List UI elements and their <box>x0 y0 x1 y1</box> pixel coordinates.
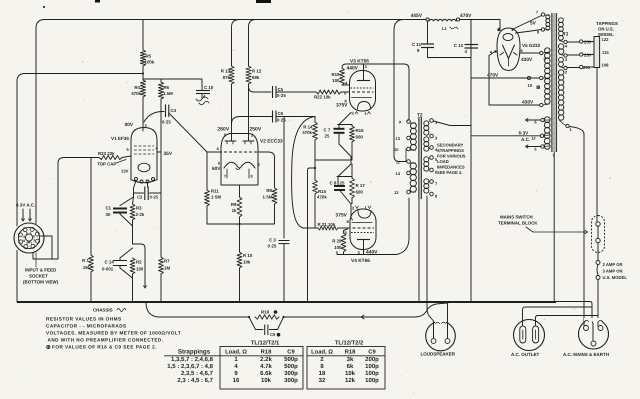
svg-text:R22 10k: R22 10k <box>314 95 331 100</box>
svg-text:U.S. MODEL: U.S. MODEL <box>603 275 628 280</box>
svg-text:500p: 500p <box>284 363 298 370</box>
svg-text:LOUDSPEAKER: LOUDSPEAKER <box>421 352 456 357</box>
svg-text:C4: C4 <box>171 108 177 113</box>
svg-text:CAPACITOR - -: CAPACITOR - - MICROFARADS <box>46 324 127 329</box>
svg-text:100p: 100p <box>365 377 379 384</box>
A.C. mains and earth plug <box>579 319 609 349</box>
svg-text:C6: C6 <box>278 111 284 116</box>
T2 left pins <box>407 120 411 124</box>
svg-text:LOAD: LOAD <box>437 159 449 164</box>
transformer T1 core <box>552 13 557 152</box>
wire C4 to V2 grid <box>169 113 207 152</box>
svg-text:V2 ECC33: V2 ECC33 <box>260 139 283 145</box>
chassis to earth wires <box>556 302 592 308</box>
svg-text:6k: 6k <box>347 363 354 370</box>
resistor R14 470k <box>313 122 318 140</box>
wire V2 grid left <box>206 152 208 190</box>
svg-text:3: 3 <box>33 238 35 242</box>
svg-text:100: 100 <box>332 78 340 83</box>
svg-text:200: 200 <box>583 65 591 70</box>
svg-text:470k: 470k <box>302 130 312 135</box>
svg-text:1·5M: 1·5M <box>262 195 272 200</box>
svg-text:0·25: 0·25 <box>277 93 286 98</box>
svg-text:100: 100 <box>334 245 342 250</box>
wire anode 4 to lower 430V <box>489 52 540 106</box>
svg-text:TOP CAP: TOP CAP <box>97 162 116 167</box>
svg-text:T3: T3 <box>563 32 569 37</box>
wire HT rail 470V top <box>36 20 404 29</box>
wire V3 anode to T2 pin9 <box>404 64 409 121</box>
wire HT rail 2 <box>17 74 143 82</box>
svg-text:100p: 100p <box>365 363 379 370</box>
svg-text:25: 25 <box>325 134 330 139</box>
svg-text:VOLTAGES. MEASURED BY MET: VOLTAGES. MEASURED BY METER OF 1000Ω/VOL… <box>46 331 181 336</box>
tube V4 KT66 <box>350 209 376 250</box>
svg-text:CHASSIS: CHASSIS <box>93 308 113 313</box>
wire 445V to T2 centre tap <box>394 20 407 162</box>
svg-text:1: 1 <box>30 232 32 236</box>
svg-text:R 21 10k: R 21 10k <box>318 222 336 227</box>
svg-text:R5: R5 <box>146 54 152 59</box>
svg-text:R 13: R 13 <box>221 69 231 74</box>
capacitor C8 25 <box>337 160 352 186</box>
svg-text:C9: C9 <box>368 349 376 356</box>
svg-text:FOR VALUES OF R18 & C9: FOR VALUES OF R18 & C9 SEE PAGE 2. <box>52 345 157 350</box>
screen line V4 <box>352 222 372 224</box>
svg-text:6·3V A.C.: 6·3V A.C. <box>16 203 35 208</box>
resistor R9 1k <box>237 197 242 217</box>
svg-text:600: 600 <box>356 190 364 195</box>
wire centre tap 10 <box>471 77 540 79</box>
T1 core earth <box>553 152 555 302</box>
svg-text:300p: 300p <box>284 370 298 377</box>
svg-text:470k: 470k <box>131 91 141 96</box>
svg-text:430V: 430V <box>521 57 533 63</box>
svg-text:V1 EF36: V1 EF36 <box>111 136 129 141</box>
svg-text:108: 108 <box>602 63 610 68</box>
tube V5 GZ32 <box>497 28 520 71</box>
wire socket pins to earth run <box>33 236 58 259</box>
cathodes V2 <box>224 162 255 168</box>
wire anode 6 to pin 9 430V <box>520 52 540 54</box>
junction below C1R3 <box>120 214 133 244</box>
svg-text:80V: 80V <box>125 122 134 127</box>
svg-text:115: 115 <box>602 50 609 55</box>
svg-text:300p: 300p <box>284 377 298 384</box>
svg-text:C5: C5 <box>278 87 284 92</box>
T2 right pins <box>430 119 434 123</box>
capacitor C7 25 <box>339 125 352 129</box>
svg-text:R 20: R 20 <box>332 239 342 244</box>
V2 bottom tail <box>239 185 241 197</box>
svg-text:A.C. MAINS & EARTH: A.C. MAINS & EARTH <box>563 352 609 357</box>
svg-text:R18: R18 <box>261 310 270 315</box>
branch to feed wire <box>133 244 146 286</box>
svg-text:445V: 445V <box>411 13 423 19</box>
wire cathode to C7 <box>339 113 351 125</box>
resistor R22 10k grid <box>316 90 341 94</box>
svg-text:7: 7 <box>30 241 32 245</box>
loudspeaker <box>426 321 456 351</box>
US tappings bar <box>594 37 600 68</box>
svg-text:7: 7 <box>536 10 538 15</box>
svg-text:0·25: 0·25 <box>150 195 159 200</box>
svg-text:1,5 : 2,3,6,7 : 4,8: 1,5 : 2,3,6,7 : 4,8 <box>167 363 213 370</box>
cathode V3 <box>358 102 371 110</box>
wire C6 to C3 <box>283 117 285 239</box>
svg-text:122: 122 <box>602 37 610 42</box>
svg-text:SEE PAGE 3.: SEE PAGE 3. <box>437 170 462 175</box>
svg-text:R 17: R 17 <box>356 183 366 188</box>
svg-text:V5 G232: V5 G232 <box>522 43 541 48</box>
wire rectifier filament to 5V winding <box>499 20 501 31</box>
capacitor C11 8 <box>427 21 429 44</box>
svg-text:0·25: 0·25 <box>162 120 171 125</box>
T1 heater winding 6.3V <box>544 117 550 123</box>
svg-text:5V: 5V <box>530 21 537 27</box>
svg-text:A.C. OUTLET: A.C. OUTLET <box>511 352 539 357</box>
cathode V4 <box>358 211 371 219</box>
svg-text:C 7: C 7 <box>324 128 331 133</box>
svg-text:TL/12/T2/1: TL/12/T2/1 <box>251 340 280 347</box>
svg-text:SOCKET: SOCKET <box>29 274 48 279</box>
svg-text:C 11: C 11 <box>412 42 422 47</box>
svg-text:R16: R16 <box>356 128 365 133</box>
heater tap wires <box>527 119 541 121</box>
wire V1 cathode to C2 <box>134 181 148 194</box>
T2 primary winding <box>410 123 416 129</box>
svg-text:200p: 200p <box>365 356 379 363</box>
svg-text:87k: 87k <box>223 75 231 80</box>
svg-text:A.C.: A.C. <box>521 137 530 142</box>
svg-text:R7: R7 <box>164 259 170 264</box>
svg-text:R8: R8 <box>266 188 272 193</box>
anode V4 <box>357 239 370 241</box>
wire anode to C5 <box>249 86 272 92</box>
capacitor C9 <box>249 317 284 330</box>
svg-text:470V: 470V <box>460 13 472 19</box>
svg-text:32: 32 <box>319 377 326 384</box>
svg-text:FOR VARIOUS: FOR VARIOUS <box>437 154 466 159</box>
svg-text:1k: 1k <box>232 208 237 213</box>
svg-text:R4: R4 <box>134 85 140 90</box>
svg-text:TERMINAL BLOCK: TERMINAL BLOCK <box>498 221 538 226</box>
svg-text:3 AMP ON: 3 AMP ON <box>603 269 623 274</box>
capacitor C5 0.25 <box>272 86 274 98</box>
wire V4 anode to T2 <box>337 198 409 255</box>
svg-text:500p: 500p <box>284 356 298 363</box>
svg-text:V4 KT66: V4 KT66 <box>351 258 370 264</box>
svg-text:1M: 1M <box>164 266 170 271</box>
svg-text:R2: R2 <box>136 260 142 265</box>
svg-text:13V: 13V <box>121 169 129 174</box>
svg-text:TL/12/T2/2: TL/12/T2/2 <box>335 340 363 347</box>
svg-text:1.5M: 1.5M <box>163 91 173 96</box>
svg-text:12k: 12k <box>345 377 356 384</box>
resistor R3 2.2k <box>130 204 135 220</box>
svg-text:2.2k: 2.2k <box>260 356 272 363</box>
svg-text:R19: R19 <box>331 72 340 77</box>
svg-text:AND WITH NO PREAMPLIFIER: AND WITH NO PREAMPLIFIER CONNECTED. <box>48 338 164 343</box>
wire T2 pin1 to ground rail <box>433 121 471 126</box>
resistor R16 600 <box>350 126 355 142</box>
resistor R8 1.5M <box>268 152 275 188</box>
long curve C6 to V4 grid <box>292 117 315 229</box>
svg-text:250: 250 <box>584 40 592 45</box>
svg-text:IMPEDANCES: IMPEDANCES <box>437 165 465 170</box>
svg-text:2·2k: 2·2k <box>136 212 145 217</box>
svg-text:30: 30 <box>106 212 111 217</box>
resistor R5 100k <box>142 20 144 51</box>
wire C6 output <box>276 116 315 118</box>
svg-text:10: 10 <box>528 83 533 88</box>
svg-text:5: 5 <box>26 232 28 236</box>
anode wire V3 440V <box>342 64 404 68</box>
ground bus mid <box>315 159 351 161</box>
svg-text:16: 16 <box>233 377 240 384</box>
svg-text:(BOTTOM VIEW): (BOTTOM VIEW) <box>23 280 59 285</box>
svg-text:R6: R6 <box>164 85 170 90</box>
resistor R1 1M <box>90 158 92 256</box>
node C14R2 <box>120 248 133 302</box>
node 470V <box>456 18 459 21</box>
svg-text:TAPPINGS: TAPPINGS <box>596 21 618 26</box>
svg-text:1: 1 <box>553 154 555 158</box>
capacitor C13 4 <box>460 20 500 45</box>
heater arrows into socket <box>23 209 30 219</box>
resistor R11 1.5M <box>205 190 210 206</box>
cathode V1 <box>138 163 150 172</box>
resistor R12 68k <box>249 20 257 67</box>
resistor R15 470k <box>313 180 318 194</box>
svg-text:1,3,5,7 : 2,4,6,8: 1,3,5,7 : 2,4,6,8 <box>171 356 214 363</box>
svg-text:12: 12 <box>394 190 399 195</box>
svg-text:C 10: C 10 <box>204 85 214 90</box>
svg-text:2,3,5 : 4,6,7: 2,3,5 : 4,6,7 <box>181 370 214 377</box>
svg-text:L1: L1 <box>442 26 448 31</box>
svg-text:R 1: R 1 <box>82 258 89 263</box>
T1 HT winding <box>545 48 551 54</box>
svg-text:230: 230 <box>584 53 592 58</box>
svg-text:INPUT & FEED: INPUT & FEED <box>25 268 57 273</box>
svg-text:375V: 375V <box>336 103 348 109</box>
svg-text:R 10: R 10 <box>243 253 253 258</box>
svg-text:100k: 100k <box>145 60 155 65</box>
resistor R18 <box>255 315 279 319</box>
svg-text:13: 13 <box>396 136 401 141</box>
svg-text:Strappings: Strappings <box>178 349 211 356</box>
svg-text:R9: R9 <box>231 202 237 207</box>
svg-text:2 AMP OR: 2 AMP OR <box>603 262 623 267</box>
svg-text:Load, Ω: Load, Ω <box>225 349 247 356</box>
svg-text:18: 18 <box>319 370 326 377</box>
svg-text:10: 10 <box>394 147 399 152</box>
input and feed socket <box>14 223 44 253</box>
svg-text:6·3V: 6·3V <box>519 131 530 136</box>
svg-text:0·001: 0·001 <box>102 267 114 272</box>
svg-text:C9: C9 <box>270 332 276 337</box>
resistor R17 600 <box>350 178 355 198</box>
grid line V2 <box>219 151 260 153</box>
grids V3 <box>351 87 374 89</box>
T2 secondary windings <box>424 121 429 126</box>
svg-text:0·25: 0·25 <box>277 118 286 123</box>
svg-text:14: 14 <box>396 171 401 176</box>
resistor R19 100 <box>340 68 345 85</box>
svg-text:R15: R15 <box>318 189 327 194</box>
svg-text:25: 25 <box>340 181 345 186</box>
svg-text:R 14: R 14 <box>303 125 313 130</box>
svg-text:10k: 10k <box>243 260 251 265</box>
resistor R4 470k <box>142 79 144 80</box>
wire chassis to feedback line <box>146 303 249 318</box>
resistor R20 100 <box>341 233 346 252</box>
svg-text:430V: 430V <box>522 100 534 106</box>
primary taps <box>564 40 567 43</box>
svg-text:8: 8 <box>251 175 253 179</box>
svg-text:RESISTOR VALUES IN OHMS: RESISTOR VALUES IN OHMS <box>46 317 122 322</box>
svg-text:R3: R3 <box>136 206 142 211</box>
svg-text:375V: 375V <box>336 213 348 219</box>
svg-text:C 3: C 3 <box>269 238 276 243</box>
wire C4 elbow from anode <box>144 112 164 123</box>
capacitor C6 0.25 <box>272 111 274 123</box>
chassis bus <box>17 301 556 303</box>
svg-text:1·5M: 1·5M <box>211 195 221 200</box>
svg-text:C 13: C 13 <box>454 43 464 48</box>
svg-text:C1: C1 <box>106 206 112 211</box>
resistor R13 87k <box>232 20 240 67</box>
fuse 2A <box>596 261 600 265</box>
svg-text:ON U.S.: ON U.S. <box>598 27 614 32</box>
ground for C10 <box>196 97 209 105</box>
svg-text:35V: 35V <box>164 151 173 157</box>
svg-text:4: 4 <box>23 235 25 239</box>
svg-text:R18: R18 <box>345 349 356 356</box>
speaker wires from T2 <box>418 199 420 302</box>
T1 5V winding <box>546 15 550 19</box>
wire US bar down to switch <box>596 68 598 216</box>
svg-text:R18: R18 <box>261 349 272 356</box>
wire V2 anode to C6 <box>232 117 273 125</box>
svg-text:2: 2 <box>26 242 28 246</box>
svg-text:100: 100 <box>136 267 144 272</box>
resistor R2 100 <box>130 258 135 274</box>
svg-text:C 8: C 8 <box>330 181 337 186</box>
T1 primary pin 1 <box>566 124 569 127</box>
anode plates V2 <box>225 134 254 142</box>
T1 primary winding <box>559 18 564 23</box>
wire primary pin1 to mains <box>569 127 584 327</box>
svg-text:STRAPPINGS: STRAPPINGS <box>437 148 464 153</box>
svg-text:60V: 60V <box>212 166 221 171</box>
capacitor C2 0.25 <box>144 187 146 201</box>
svg-text:600: 600 <box>356 135 364 140</box>
svg-text:100p: 100p <box>365 370 379 377</box>
resistor R21 10k <box>303 227 318 229</box>
svg-text:10k: 10k <box>261 377 272 384</box>
wire 35V screen <box>157 151 161 153</box>
svg-text:4.7k: 4.7k <box>260 363 272 370</box>
svg-text:Load, Ω: Load, Ω <box>311 349 333 356</box>
capacitor C4 0.25 <box>165 105 167 118</box>
svg-text:8: 8 <box>23 239 25 243</box>
svg-text:10k: 10k <box>345 370 356 377</box>
svg-text:SECONDARY: SECONDARY <box>437 143 464 148</box>
svg-text:0·25: 0·25 <box>268 244 277 249</box>
svg-text:C9: C9 <box>287 349 295 356</box>
svg-text:R11: R11 <box>211 189 219 194</box>
choke L1 <box>429 19 456 21</box>
resistor R6 1.5M <box>160 79 162 82</box>
svg-text:R 12: R 12 <box>252 69 262 74</box>
svg-text:470k: 470k <box>317 195 327 200</box>
svg-text:3k: 3k <box>347 356 354 363</box>
svg-text:440V: 440V <box>347 66 359 72</box>
node C1R3 top <box>120 193 134 206</box>
grids V4 <box>348 227 375 229</box>
svg-text:7: 7 <box>224 175 226 179</box>
wires C8 R17 to V4 cathode <box>340 190 353 220</box>
resistor R10 10k <box>237 252 242 268</box>
svg-text:1M: 1M <box>83 265 89 270</box>
ground rail right <box>470 20 472 303</box>
wire input to R23 <box>58 158 99 260</box>
svg-text:C2: C2 <box>137 195 143 200</box>
resistor R7 1M <box>159 257 164 274</box>
A.C. outlet <box>514 320 545 351</box>
svg-text:MAINS SWITCH: MAINS SWITCH <box>500 215 533 220</box>
svg-text:C 14: C 14 <box>105 260 115 265</box>
svg-text:68k: 68k <box>252 75 260 80</box>
node 445V <box>426 18 429 21</box>
wire C11 C13 common <box>428 57 472 59</box>
svg-text:2,3 : 4,5 : 6,7: 2,3 : 4,5 : 6,7 <box>177 377 213 384</box>
svg-text:6.6k: 6.6k <box>260 370 272 377</box>
